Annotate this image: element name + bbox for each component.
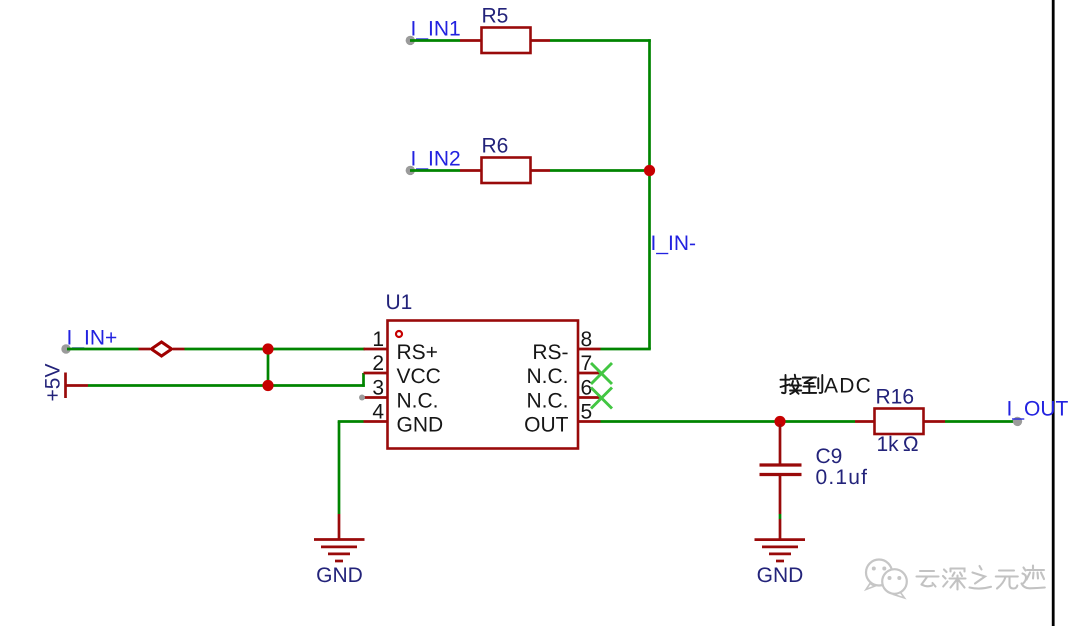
svg-text:ADC: ADC (824, 375, 872, 398)
wire (185, 348, 365, 351)
terminal pin3 (359, 395, 365, 401)
label R5 (482, 5, 509, 28)
pin label RS+ (397, 341, 438, 364)
svg-text:3: 3 (372, 377, 384, 400)
pin number 4 (372, 401, 384, 424)
svg-text:1k Ω: 1k Ω (877, 433, 919, 456)
label C9 (816, 445, 843, 468)
border line (1052, 0, 1055, 626)
pin 3 (364, 396, 388, 399)
pin number 3 (372, 377, 384, 400)
probe diamond (139, 342, 185, 356)
wire (460, 39, 482, 42)
no-connect X pin7 (591, 363, 612, 384)
value 1k ohm (877, 433, 919, 456)
pin 1 (364, 348, 388, 351)
label U1 (386, 291, 413, 314)
pin 5 (578, 420, 601, 423)
wire (855, 420, 875, 423)
resistor R16 (875, 409, 924, 435)
op-amp U1 body (388, 321, 579, 449)
wire pin5 out (601, 420, 781, 423)
wire (410, 39, 460, 42)
value 0.1uf (816, 466, 869, 489)
svg-text:+5V: +5V (42, 364, 65, 402)
pin number 2 (372, 352, 384, 375)
wire (362, 373, 365, 387)
note ADC (824, 375, 872, 398)
svg-text:RS-: RS- (532, 341, 568, 364)
svg-text:1: 1 (372, 328, 384, 351)
pin number 6 (581, 377, 593, 400)
pin label VCC (397, 365, 441, 388)
label +5V (42, 364, 65, 402)
wire (945, 420, 1016, 423)
wire (780, 420, 855, 423)
wire (67, 348, 139, 351)
wire (924, 420, 946, 423)
svg-text:7: 7 (581, 352, 593, 375)
svg-text:GND: GND (397, 414, 444, 437)
junction (262, 380, 273, 391)
node I_IN1 label (411, 18, 461, 41)
pin number 5 (581, 401, 593, 424)
pin 6 (578, 396, 601, 399)
svg-text:R16: R16 (876, 386, 915, 409)
pin label GND (397, 414, 444, 437)
svg-text:6: 6 (581, 377, 593, 400)
svg-text:GND: GND (316, 564, 363, 587)
wire (550, 169, 650, 172)
svg-text:C9: C9 (816, 445, 843, 468)
node I_IN+ label (67, 327, 118, 350)
svg-text:4: 4 (372, 401, 384, 424)
svg-text:8: 8 (581, 328, 593, 351)
wire (531, 39, 551, 42)
pin 7 (578, 372, 601, 375)
svg-text:5: 5 (581, 401, 593, 424)
ground GND right (755, 519, 806, 561)
node I_IN- label (651, 232, 697, 255)
note 接到 (hanzi strokes) (781, 375, 823, 394)
svg-text:GND: GND (757, 564, 804, 587)
node I_OUT label (1007, 398, 1069, 421)
pin label N.C. 7 (527, 365, 569, 388)
watermark wechat icon (866, 560, 907, 599)
svg-text:U1: U1 (386, 291, 413, 314)
pin 8 (578, 348, 601, 351)
pin label N.C. (397, 390, 439, 413)
terminal I_IN2 (406, 166, 415, 175)
svg-text:I_IN-: I_IN- (651, 232, 697, 255)
wire (410, 169, 460, 172)
wire (460, 169, 482, 172)
watermark text 云深之无迹 (hanzi strokes) (917, 566, 1045, 590)
junction (774, 416, 785, 427)
pin 2 (364, 372, 388, 375)
wire (338, 422, 341, 515)
wire (779, 514, 782, 519)
pin1 indicator (396, 331, 402, 337)
svg-text:0.1uf: 0.1uf (816, 466, 869, 489)
pin label RS- (532, 341, 568, 364)
svg-text:I_IN1: I_IN1 (411, 18, 461, 41)
junction (262, 343, 273, 354)
power +5V (66, 373, 89, 399)
svg-text:I_OUT: I_OUT (1007, 398, 1069, 421)
terminal I_IN1 (406, 36, 415, 45)
pin number 7 (581, 352, 593, 375)
junction (644, 165, 655, 176)
svg-text:OUT: OUT (524, 414, 569, 437)
pin 4 (364, 420, 388, 423)
label GND right (757, 564, 804, 587)
resistor R6 (482, 158, 531, 184)
svg-text:N.C.: N.C. (527, 390, 569, 413)
svg-text:I_IN2: I_IN2 (411, 148, 461, 171)
label GND left (316, 564, 363, 587)
pin label N.C. 6 (527, 390, 569, 413)
pin number 8 (581, 328, 593, 351)
pin label OUT (524, 414, 569, 437)
svg-text:RS+: RS+ (397, 341, 438, 364)
node I_IN2 label (411, 148, 461, 171)
wire (88, 384, 365, 387)
wire pin4 (338, 420, 364, 423)
svg-text:N.C.: N.C. (397, 390, 439, 413)
label R16 (876, 386, 915, 409)
wire (648, 39, 651, 349)
svg-text:VCC: VCC (397, 365, 441, 388)
svg-text:I_IN+: I_IN+ (67, 327, 118, 350)
no-connect X pin6 (591, 388, 612, 409)
wire pin8 to I_IN- (601, 348, 651, 351)
svg-text:N.C.: N.C. (527, 365, 569, 388)
pin number 1 (372, 328, 384, 351)
wire (267, 349, 270, 386)
svg-text:R5: R5 (482, 5, 509, 28)
terminal I_OUT (1013, 417, 1022, 426)
label R6 (482, 135, 509, 158)
ground GND left (314, 514, 365, 561)
svg-text:R6: R6 (482, 135, 509, 158)
svg-text:2: 2 (372, 352, 384, 375)
resistor R5 (482, 28, 531, 54)
terminal I_IN+ (61, 344, 70, 353)
wire (550, 39, 651, 42)
wire (531, 169, 551, 172)
capacitor C9 (760, 424, 802, 514)
